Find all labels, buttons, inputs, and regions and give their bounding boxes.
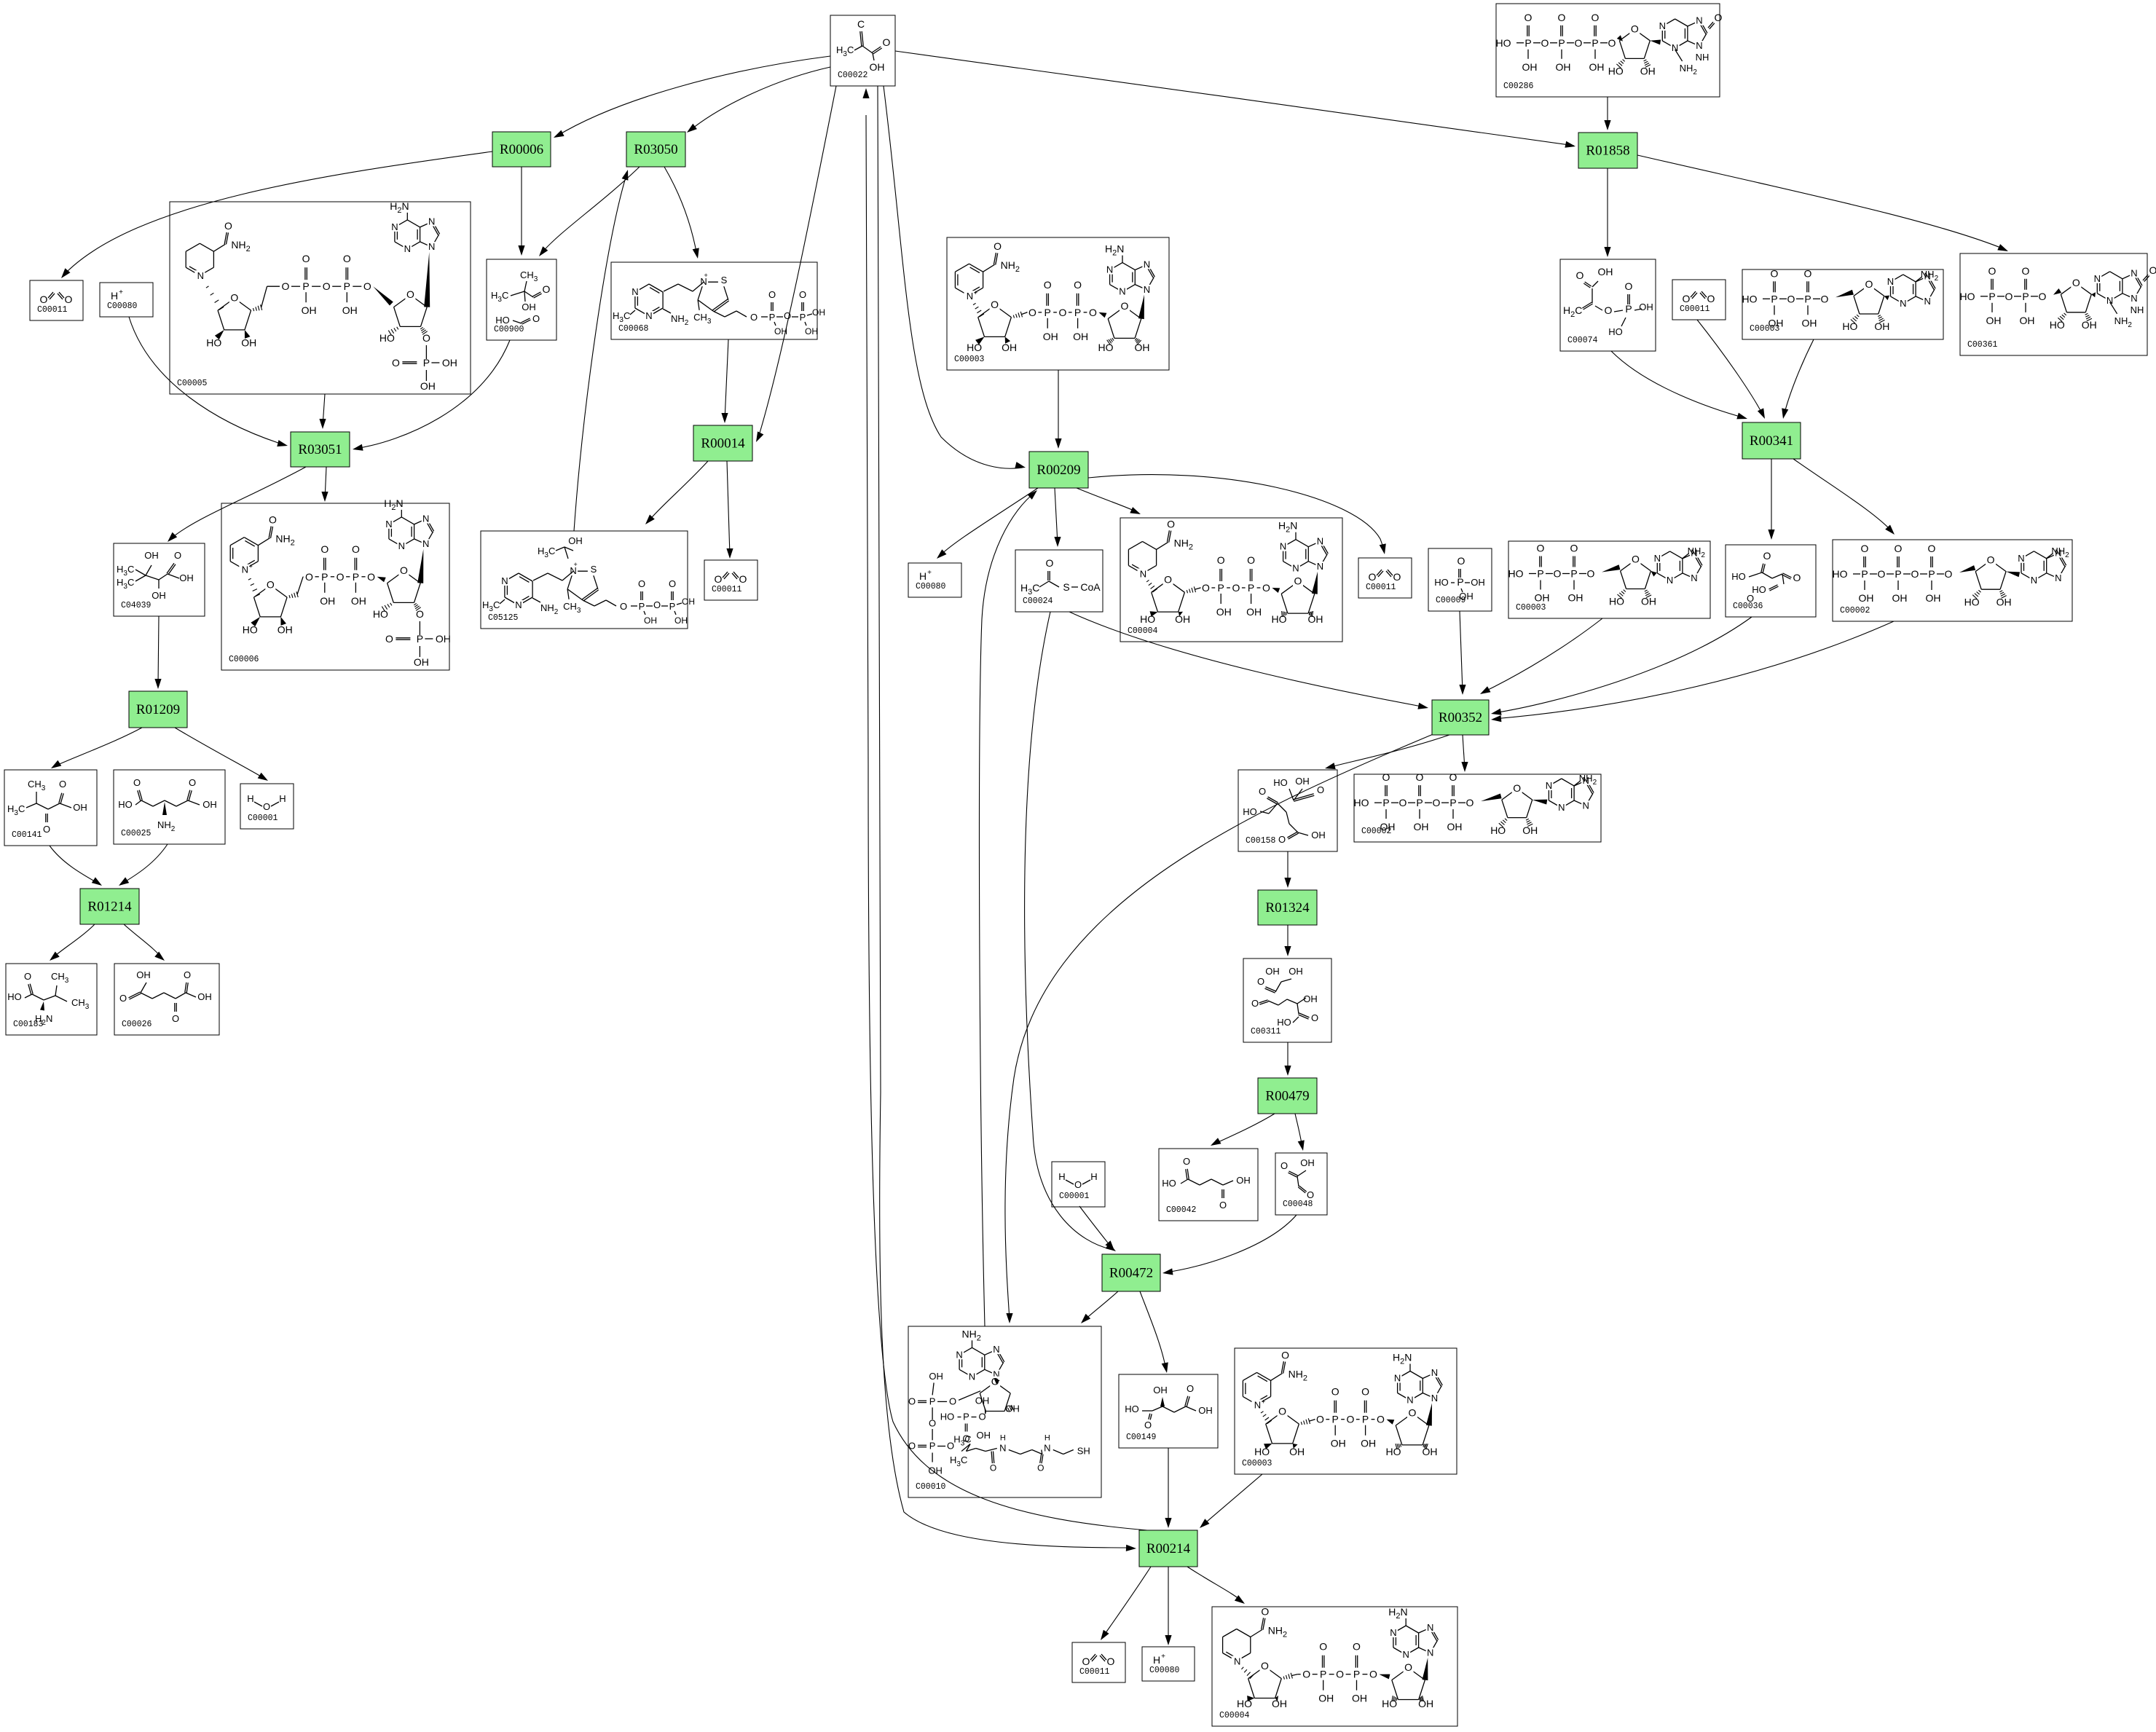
svg-text:O: O [422,332,430,344]
svg-text:P: P [769,312,776,323]
svg-text:O: O [1167,518,1175,530]
svg-text:O: O [1262,582,1270,594]
svg-text:N: N [1317,561,1323,572]
compound C00080 a [100,283,153,317]
svg-text:HO: HO [1609,596,1624,607]
svg-text:O: O [172,1013,179,1024]
svg-text:N: N [632,286,638,297]
reaction R00214 [1139,1530,1197,1567]
edge C00002a->R00352 [1494,621,1894,719]
svg-text:N: N [1431,1393,1438,1404]
svg-text:O: O [768,289,776,300]
svg-text:OH: OH [1380,821,1396,832]
svg-text:O: O [174,550,181,561]
svg-text:CoA: CoA [1080,581,1101,593]
svg-text:N: N [2106,295,2113,306]
svg-text:P: P [963,1412,969,1422]
edge C00005->R03051 [323,394,325,426]
svg-text:N: N [1144,284,1150,295]
svg-text:O: O [669,578,676,589]
svg-text:+: + [704,272,707,279]
svg-text:O: O [1046,557,1054,569]
svg-text:P: P [1804,293,1811,304]
reaction R03050 [626,132,685,167]
svg-text:P: P [1558,37,1565,49]
svg-text:N: N [1672,42,1678,53]
svg-text:O: O [1294,575,1302,587]
reaction R00479 [1258,1078,1317,1114]
svg-text:O: O [715,573,723,585]
svg-text:O: O [883,36,891,48]
svg-text:N: N [515,599,522,610]
svg-text:P: P [1218,582,1224,594]
svg-text:C00003: C00003 [1516,603,1546,613]
edge R00209->C00011d [1088,475,1385,551]
svg-text:O: O [184,969,191,980]
svg-text:N: N [501,575,508,586]
svg-text:C00004: C00004 [1219,1711,1250,1720]
compound C00011 a [30,280,83,320]
svg-text:O: O [406,288,414,300]
svg-text:OH: OH [682,597,695,607]
svg-text:HO: HO [2050,319,2065,331]
svg-text:C00080: C00080 [107,302,138,311]
edge R00472->C00149 [1140,1291,1166,1370]
svg-text:OH: OH [1303,993,1318,1004]
svg-text:P: P [639,601,645,612]
svg-text:O: O [1261,1660,1269,1672]
svg-text:O: O [1787,293,1795,304]
svg-text:N: N [1317,535,1323,546]
svg-text:O: O [653,599,661,610]
svg-text:OH: OH [2082,319,2097,331]
reaction R00472 [1102,1254,1160,1291]
svg-text:O: O [1449,771,1457,783]
svg-text:OH: OH [320,595,335,607]
svg-text:R01214: R01214 [87,900,132,915]
svg-text:N: N [1546,780,1552,791]
svg-text:O: O [1107,1656,1115,1667]
svg-text:O: O [392,357,400,369]
svg-text:O: O [230,292,238,304]
svg-text:O: O [267,579,275,591]
edge R01858->C00361 [1637,155,2006,250]
svg-text:P: P [800,312,806,323]
svg-text:P: P [1861,568,1868,580]
reaction R03051 [291,432,350,467]
svg-text:OH: OH [1236,1175,1251,1186]
svg-text:+: + [1262,1398,1265,1405]
svg-text:C00068: C00068 [618,324,649,334]
svg-text:C00149: C00149 [1126,1433,1157,1442]
svg-text:C05125: C05125 [488,613,519,623]
svg-text:O: O [367,571,375,583]
svg-text:C00003: C00003 [1242,1459,1272,1468]
svg-text:O: O [1541,37,1549,49]
svg-text:N: N [428,241,435,252]
svg-text:P: P [1353,1669,1360,1680]
svg-text:OH: OH [1802,317,1817,328]
edge C00025->R01214 [121,844,168,884]
svg-text:HO: HO [1386,1446,1401,1457]
svg-text:N: N [1292,563,1299,574]
svg-text:OH: OH [420,380,436,392]
svg-text:OH: OH [152,590,166,601]
svg-text:N: N [1140,568,1146,579]
svg-text:R03050: R03050 [634,142,677,157]
svg-text:N: N [2131,293,2137,304]
svg-text:OH: OH [1002,342,1017,353]
compound C00003 c [1508,541,1710,618]
svg-text:OH: OH [1769,317,1784,328]
svg-text:N: N [645,310,652,321]
svg-text:OH: OH [1073,331,1088,342]
svg-text:OH: OH [1522,824,1538,836]
edge R00014->C00011c [727,461,730,556]
svg-text:R00209: R00209 [1036,462,1080,478]
svg-text:N: N [1234,1656,1240,1667]
compound C00006 [221,503,449,670]
edge R00352->C00010 [1005,733,1435,1320]
edge R00472->C00010 [1083,1291,1118,1321]
svg-text:N: N [1427,1622,1433,1633]
reaction R01214 [80,889,139,924]
svg-text:O: O [1707,293,1715,304]
svg-text:OH: OH [1926,592,1941,604]
svg-text:S: S [591,564,597,575]
svg-text:NH: NH [1696,52,1710,63]
edge C00010->R00209 [980,492,1035,1326]
svg-text:N: N [1691,572,1697,583]
svg-text:O: O [2072,277,2080,288]
svg-text:O: O [1257,976,1264,987]
svg-text:O: O [1878,568,1886,580]
svg-text:C00025: C00025 [121,829,152,838]
svg-text:OH: OH [1246,606,1262,618]
svg-text:O: O [1433,797,1441,808]
svg-text:NH: NH [2131,304,2144,315]
svg-text:N: N [1696,15,1702,26]
svg-text:O: O [1074,279,1082,291]
svg-text:HO: HO [1490,824,1506,836]
svg-text:O: O [1281,1349,1289,1361]
svg-text:+: + [573,561,577,568]
svg-text:HO: HO [1742,293,1758,304]
svg-text:O: O [40,294,48,305]
svg-text:O: O [1457,555,1465,567]
svg-text:C00286: C00286 [1503,82,1534,91]
svg-text:H: H [1153,1654,1160,1666]
svg-text:O: O [1202,582,1210,594]
svg-text:N: N [1144,259,1150,269]
svg-text:O: O [1247,554,1255,566]
edge C00048->R00472 [1165,1215,1297,1272]
svg-text:OH: OH [1874,320,1889,332]
svg-text:H: H [1044,1434,1050,1443]
svg-text:P: P [1570,568,1577,580]
edge C00024->R00352 [1069,612,1425,707]
svg-text:P: P [2022,291,2029,302]
svg-text:O: O [1537,543,1545,554]
edge C00003d->R00214 [1202,1474,1262,1526]
edge C00001b->R00472 [1079,1206,1112,1248]
svg-text:O: O [1336,1669,1344,1680]
svg-text:SH: SH [1077,1446,1090,1457]
svg-text:+: + [974,289,977,296]
svg-text:N: N [967,291,973,302]
svg-text:P: P [344,280,350,292]
edge R00341->C00002a [1793,459,1893,532]
svg-text:O: O [224,220,232,232]
edge R00209->C00080b [939,488,1038,556]
reaction R01209 [129,691,187,728]
compound C00002 b [1354,774,1601,842]
svg-text:OH: OH [928,1465,943,1476]
svg-text:P: P [1457,576,1463,588]
compound C05125 [481,531,688,629]
reaction R00006 [492,132,551,167]
svg-text:N: N [2131,268,2137,279]
svg-text:C00011: C00011 [1680,304,1710,314]
svg-text:R00014: R00014 [701,436,745,452]
edge R00214->C00004b [1187,1567,1243,1602]
svg-text:R03051: R03051 [298,442,342,457]
svg-text:P: P [1449,797,1456,808]
edge R01858->C00074 [1607,168,1608,254]
svg-text:O: O [1625,280,1633,292]
svg-text:OH: OH [1986,315,2002,326]
svg-text:O: O [1399,797,1407,808]
svg-text:OH: OH [278,624,293,636]
svg-text:OH: OH [1318,1693,1334,1704]
svg-text:HO: HO [118,799,133,810]
svg-text:N: N [2094,273,2101,284]
svg-text:OH: OH [1471,577,1485,588]
svg-text:HO: HO [1496,37,1511,49]
svg-text:OH: OH [1153,1385,1168,1396]
svg-text:OH: OH [1216,606,1232,618]
svg-text:O: O [2022,265,2030,277]
svg-text:H: H [111,290,118,302]
edge C00286->R01858 [1607,97,1608,128]
svg-text:R00479: R00479 [1265,1089,1309,1104]
svg-text:P: P [423,357,430,369]
svg-text:C00010: C00010 [916,1482,946,1492]
svg-text:P: P [1928,568,1935,580]
edge C00022->R01858 [895,51,1574,146]
svg-text:N: N [1900,298,1906,309]
svg-text:OH: OH [674,615,688,626]
svg-text:O: O [1037,1463,1044,1473]
svg-text:O: O [638,578,645,589]
svg-text:O: O [1319,1641,1327,1653]
svg-text:HO: HO [1162,1178,1176,1189]
edge C00022->R00214 [878,86,1133,1548]
svg-text:OH: OH [522,302,536,312]
svg-text:OH: OH [1640,66,1656,77]
svg-text:OH: OH [805,326,818,336]
svg-text:O: O [1331,1386,1339,1398]
svg-text:O: O [994,240,1002,252]
svg-text:H: H [919,570,926,582]
svg-text:HO: HO [1752,584,1766,595]
compound C00036 [1726,545,1816,617]
svg-text:O: O [1361,1386,1369,1398]
svg-text:HO: HO [1354,797,1369,808]
svg-text:C00005: C00005 [177,379,208,388]
svg-text:OH: OH [1289,966,1303,977]
svg-text:P: P [929,1441,936,1452]
edge R00209->C00004a [1077,488,1138,513]
svg-text:O: O [1911,568,1919,580]
svg-text:OH: OH [73,802,87,813]
svg-text:C00001: C00001 [248,814,278,823]
svg-text:OH: OH [1641,596,1656,607]
svg-text:O: O [1416,771,1424,783]
compound C00022 [830,15,895,86]
svg-text:O: O [43,824,50,835]
svg-text:H: H [1058,1171,1065,1182]
svg-text:R00352: R00352 [1439,710,1482,725]
svg-text:P: P [302,280,309,292]
svg-text:C00080: C00080 [1149,1666,1180,1675]
svg-text:P: P [321,571,328,583]
svg-text:C04039: C04039 [121,601,152,610]
svg-text:O: O [1524,12,1533,23]
svg-text:R00472: R00472 [1109,1266,1153,1281]
svg-text:O: O [282,280,290,292]
svg-text:N: N [1394,1373,1401,1384]
svg-text:O: O [1164,574,1172,586]
svg-text:O: O [1683,293,1691,304]
svg-text:OH: OH [2020,315,2035,326]
svg-text:O: O [320,543,328,555]
svg-text:N: N [969,1371,975,1382]
svg-text:OH: OH [1459,591,1474,602]
svg-text:C00011: C00011 [712,585,742,594]
svg-text:OH: OH [442,357,457,369]
svg-text:O: O [1804,267,1812,279]
reaction R00209 [1029,452,1088,488]
compound C00900 [487,259,556,340]
svg-text:O: O [1945,568,1953,580]
svg-text:OH: OH [1535,592,1550,604]
svg-text:N: N [1583,800,1589,811]
svg-text:C00311: C00311 [1251,1027,1281,1036]
edge C00149->R00214 [1168,1448,1169,1525]
svg-text:O: O [133,777,141,788]
svg-text:N: N [404,243,411,254]
svg-text:HO: HO [940,1412,955,1422]
svg-text:OH: OH [1175,613,1190,625]
svg-text:O: O [1558,12,1566,23]
edge R01209->C00141 [53,728,142,767]
svg-text:HO: HO [373,608,388,620]
svg-text:OH: OH [1198,1405,1213,1416]
edge R03051->C00006 [325,467,326,500]
svg-text:O: O [1928,543,1936,554]
svg-text:O: O [949,1396,956,1406]
edge R00341->C00036 [1771,459,1772,537]
svg-text:N: N [1119,286,1125,297]
compound C00183 [6,964,97,1035]
svg-text:HO: HO [1731,571,1746,582]
svg-text:P: P [1416,797,1423,808]
svg-text:O: O [739,573,747,585]
svg-text:O: O [65,294,73,305]
svg-text:O: O [620,601,627,612]
svg-text:C00003: C00003 [954,355,985,364]
edge R03050->C00900 [541,167,640,253]
compound C00001 b [1052,1162,1105,1207]
compound C00004 a [1120,518,1342,642]
svg-text:N: N [1427,1647,1433,1658]
compound C00024 [1015,550,1103,612]
svg-text:P: P [1362,1414,1369,1425]
svg-text:P: P [353,571,359,583]
svg-text:N: N [1659,20,1666,31]
svg-text:C: C [857,18,865,30]
svg-text:O: O [385,633,393,645]
svg-text:P: P [1044,307,1051,318]
svg-text:P: P [1382,797,1389,808]
svg-text:OH: OH [414,656,429,668]
svg-text:C00011: C00011 [1079,1667,1110,1677]
svg-text:N: N [1887,276,1894,287]
svg-text:OH: OH [1556,61,1571,73]
edge C00003b->R00341 [1784,339,1814,416]
svg-text:OH: OH [1568,592,1583,604]
svg-text:HO: HO [1608,66,1624,77]
svg-text:C00080: C00080 [916,582,946,591]
svg-text:C00048: C00048 [1283,1200,1313,1209]
svg-text:O: O [1576,269,1584,281]
svg-text:N: N [385,519,392,530]
compound C00002 a [1833,540,2072,621]
svg-text:R01209: R01209 [136,702,180,717]
svg-text:C00074: C00074 [1567,336,1598,345]
svg-text:OH: OH [929,1371,943,1382]
svg-text:R00214: R00214 [1146,1541,1191,1556]
svg-text:N: N [2031,575,2037,586]
svg-text:P: P [1537,568,1543,580]
svg-text:O: O [1747,593,1754,604]
svg-text:N: N [999,1443,1006,1454]
svg-text:OH: OH [1996,596,2012,607]
svg-text:N: N [1654,553,1661,564]
svg-text:OH: OH [1331,1438,1346,1449]
edge R03050->C00068 [664,167,697,256]
svg-text:O: O [1251,998,1259,1009]
svg-text:O: O [1895,543,1903,554]
compound C00068 [611,262,817,339]
edge R00479->C00048 [1295,1114,1302,1148]
svg-text:C00141: C00141 [12,830,42,840]
svg-text:OH: OH [1639,302,1653,312]
svg-text:HO: HO [1608,326,1623,337]
svg-text:O: O [1278,1406,1286,1417]
svg-text:OH: OH [302,304,317,316]
svg-text:O: O [1570,543,1578,554]
svg-text:C00011: C00011 [37,305,68,315]
svg-text:HO: HO [1125,1404,1139,1414]
svg-text:N: N [1106,264,1113,275]
svg-text:O: O [1089,307,1097,318]
svg-text:P: P [1524,37,1531,49]
svg-text:OH: OH [1414,821,1429,832]
svg-text:O: O [352,543,360,555]
svg-text:C00900: C00900 [494,325,524,334]
